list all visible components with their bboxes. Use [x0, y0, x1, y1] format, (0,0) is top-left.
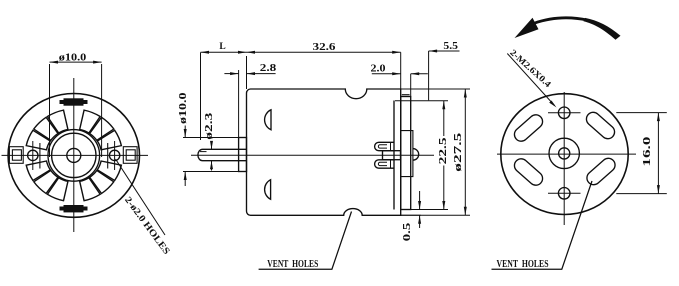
dimension ø10.0 of shaft bushing (rotated) — [183, 126, 247, 187]
side view front bushing — [239, 138, 247, 172]
side view rear bearing bump — [413, 149, 419, 161]
front view right mounting hole — [109, 150, 119, 160]
front view left hole vertical crosshair — [32, 141, 34, 170]
side view motor body outline with vent notch and bump — [247, 89, 401, 215]
rear view bottom screw hole — [558, 188, 570, 200]
front view bearing boss ring outer circle — [48, 130, 100, 182]
front view left mounting hole — [28, 150, 38, 160]
rear view lower-left vent slot — [512, 156, 546, 188]
rear view shaft hole circle — [559, 148, 570, 159]
svg-text:L: L — [219, 42, 225, 52]
rear view vertical centerline — [563, 92, 565, 225]
front view right pole slot line — [107, 143, 109, 169]
svg-text:ø10.0: ø10.0 — [178, 93, 189, 125]
front view top magnet clip bar — [60, 98, 88, 105]
svg-text:2.0: 2.0 — [371, 64, 386, 75]
dimension 16.0 (rotated) — [616, 113, 667, 194]
front view rotor lamination wedges — [26, 110, 121, 201]
side view rear inner line — [393, 101, 395, 210]
front view outer can circle — [8, 93, 139, 217]
front view left terminal tab — [9, 147, 23, 164]
dimension 22.5 (rotated) — [395, 101, 448, 210]
label VENT HOLES of rear view — [492, 181, 593, 270]
rear view upper-left vent slot — [512, 112, 546, 144]
rear view horizontal centerline — [497, 153, 636, 155]
bushing face extension line for 2.8 dim — [238, 70, 240, 138]
front view shaft circle — [67, 148, 81, 162]
side view lower terminal — [375, 160, 394, 168]
svg-text:0.5: 0.5 — [402, 223, 413, 242]
dimension 2.8 — [224, 73, 275, 75]
rear view outer circle — [501, 94, 628, 215]
leader 2-ø2.0 HOLES — [116, 159, 172, 257]
side view lower D vent hole — [265, 180, 271, 200]
side view rear center box — [383, 151, 401, 160]
svg-text:32.6: 32.6 — [313, 42, 336, 53]
dimension ø10.0 of front view — [50, 62, 102, 157]
front view bearing boss ring inner circle — [52, 133, 96, 177]
svg-text:ø2.3: ø2.3 — [204, 113, 215, 140]
leader 2-M2.6X0.4 — [507, 47, 556, 107]
rear view bearing circle — [549, 138, 579, 168]
rear view top screw hole — [558, 107, 570, 119]
front view right hole vertical crosshair — [114, 141, 116, 170]
side view rear cap — [401, 97, 411, 210]
shaft tip chamfer line — [200, 151, 207, 153]
svg-text:22.5: 22.5 — [438, 137, 449, 164]
side view upper D vent hole — [265, 110, 271, 130]
svg-text:VENT HOLES: VENT HOLES — [267, 259, 318, 270]
svg-text:2-ø2.0 HOLES: 2-ø2.0 HOLES — [122, 195, 171, 256]
rear cap top step — [402, 94, 410, 96]
dimension ø27.5 (rotated) — [401, 89, 470, 215]
dimension 2.0 — [372, 74, 428, 97]
dimension ø2.3 of shaft (rotated) — [211, 142, 213, 171]
svg-text:2-M2.6X0.4: 2-M2.6X0.4 — [508, 47, 553, 89]
rear view top screw hole crosshair — [548, 112, 581, 114]
side view horizontal centerline — [191, 154, 434, 156]
front view bottom magnet clip bar — [60, 205, 88, 212]
front view horizontal centerline — [2, 154, 149, 156]
front view vertical centerline — [73, 78, 75, 232]
rear view bottom screw hole crosshair — [548, 192, 581, 194]
front view right terminal tab — [123, 147, 137, 164]
dimension 5.5 — [429, 51, 460, 100]
dimension 0.5 (rotated) — [400, 191, 436, 228]
side view upper terminal — [375, 142, 394, 150]
dimension 32.6 — [247, 52, 401, 89]
svg-text:VENT HOLES: VENT HOLES — [497, 259, 549, 270]
rotation direction arrow — [515, 16, 621, 39]
svg-text:ø10.0: ø10.0 — [59, 53, 87, 64]
side view shaft — [198, 149, 247, 160]
label VENT HOLES of side view — [259, 212, 352, 270]
rear cap middle step section — [401, 131, 413, 177]
svg-text:16.0: 16.0 — [642, 137, 653, 167]
rear view lower-right vent slot — [584, 156, 618, 188]
svg-text:5.5: 5.5 — [443, 41, 458, 52]
svg-text:2.8: 2.8 — [260, 63, 277, 74]
front view left pole slot line — [39, 143, 41, 169]
rear view upper-right vent slot — [584, 110, 618, 142]
dimension L — [201, 52, 247, 140]
svg-text:ø27.5: ø27.5 — [453, 133, 464, 172]
